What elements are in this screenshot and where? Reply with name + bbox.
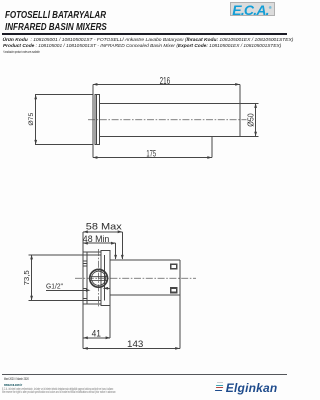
svg-text:143: 143 [127, 339, 143, 350]
svg-text:216: 216 [160, 74, 171, 86]
svg-text:41: 41 [92, 328, 102, 338]
svg-text:Ø50: Ø50 [246, 113, 256, 126]
svg-text:G1/2": G1/2" [46, 283, 64, 290]
svg-text:48 Min: 48 Min [83, 234, 109, 244]
svg-text:175: 175 [146, 148, 156, 159]
svg-text:58 Max: 58 Max [86, 222, 122, 232]
svg-text:Ø75: Ø75 [28, 113, 35, 126]
svg-text:73,5: 73,5 [22, 270, 31, 285]
